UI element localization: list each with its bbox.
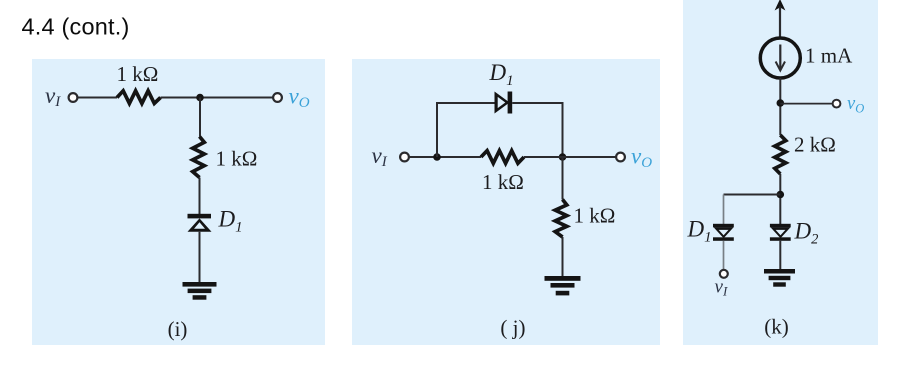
svg-text:1 mA: 1 mA	[805, 44, 853, 68]
wire terminal to node (panel j)	[409, 156, 481, 158]
node junction (panel i)	[196, 94, 204, 102]
value label 1 kOhm for R2 (panel j)	[574, 204, 616, 228]
svg-text:4.4 (cont.): 4.4 (cont.)	[22, 14, 130, 40]
value label 2 kOhm (panel k)	[794, 133, 836, 157]
diode D1 (panel i, cathode bar on top, triangle pointing up)	[188, 214, 212, 232]
node right junction (panel j)	[559, 153, 567, 161]
label vO (panel k)	[847, 94, 864, 115]
terminal vI (panel j)	[400, 153, 409, 162]
ground (panel j)	[545, 276, 581, 295]
wire R2 to ground (panel j)	[562, 237, 564, 277]
wire terminal to resistor R1	[78, 97, 117, 99]
label D1 (panel i)	[218, 207, 243, 236]
wire diode D1 to ground (panel i)	[199, 232, 201, 283]
svg-text:1 kΩ: 1 kΩ	[117, 62, 159, 86]
resistor R1 2 kOhm vertical (panel k)	[775, 135, 786, 174]
resistor R1 1 kOhm horizontal (panel i)	[117, 91, 161, 104]
svg-text:1 kΩ: 1 kΩ	[482, 170, 524, 194]
wire R2 to diode D1 (panel i)	[199, 178, 201, 216]
wire diode D1 to terminal vI (panel k)	[723, 241, 725, 270]
current source I1 1 mA (panel k)	[760, 38, 800, 78]
wire diode D2 to ground (panel k)	[779, 241, 781, 270]
label vO (panel i)	[289, 84, 310, 111]
wire lower node left and down to diode D1 (panel k)	[724, 195, 781, 225]
diode D1 (panel k, pointing down)	[713, 224, 734, 241]
svg-text:( j): ( j)	[500, 316, 525, 340]
terminal vI (panel i)	[69, 93, 78, 102]
resistor R1 1 kOhm horizontal (panel j)	[481, 151, 524, 164]
caption (i)	[168, 317, 188, 341]
caption (k)	[764, 314, 789, 338]
panel (j) background	[352, 59, 660, 345]
ground (panel i)	[183, 282, 217, 300]
node left junction (panel j)	[433, 153, 441, 161]
svg-text:(k): (k)	[764, 314, 789, 338]
resistor R2 1 kOhm vertical (panel j)	[555, 200, 567, 238]
wire current source to node (panel k)	[779, 78, 781, 135]
wire left junction up to top branch	[437, 103, 495, 157]
wire right junction to terminal vO (panel j)	[524, 156, 616, 158]
wire diode to right corner and down (panel j)	[512, 103, 562, 157]
wire node to terminal vO (panel k)	[780, 103, 832, 105]
terminal vO (panel k)	[833, 100, 841, 108]
svg-text:2 kΩ: 2 kΩ	[794, 133, 836, 157]
terminal vO (panel i)	[273, 93, 282, 102]
node junction lower (panel k)	[777, 191, 785, 199]
label vO (panel j)	[631, 144, 652, 171]
terminal vO (panel j)	[616, 153, 625, 162]
panel (k) background	[683, 0, 878, 345]
value label 1 mA (panel k)	[805, 44, 853, 68]
label D1 (panel k)	[687, 217, 712, 246]
label vI (panel k)	[715, 277, 728, 299]
value label 1 kOhm below R1 (panel j)	[482, 170, 524, 194]
wire right junction down to resistor R2 (panel j)	[562, 157, 564, 200]
caption (j)	[500, 316, 525, 340]
wire R1 to terminal vO (panel i)	[161, 97, 274, 99]
value label 1 kOhm for R2	[216, 147, 258, 171]
terminal vI (panel k)	[720, 270, 728, 278]
label vI (panel j)	[372, 143, 388, 170]
wire node down to resistor R2	[199, 98, 201, 137]
wire resistor to lower node (panel k)	[779, 174, 781, 225]
label D1 (panel j)	[489, 60, 514, 89]
resistor R2 1 kOhm vertical (panel i)	[193, 137, 205, 178]
value label 1 kOhm for R1	[117, 62, 159, 86]
diode D1 (panel j, horizontal, pointing right)	[495, 92, 513, 114]
svg-text:(i): (i)	[168, 317, 188, 341]
ground (panel k)	[764, 269, 795, 287]
node junction top (panel k)	[777, 99, 785, 107]
svg-text:1 kΩ: 1 kΩ	[216, 147, 258, 171]
diode D2 (panel k, pointing down)	[770, 224, 791, 241]
arrow up at top (panel k)	[775, 0, 786, 38]
label vI (panel i)	[45, 83, 61, 110]
svg-text:1 kΩ: 1 kΩ	[574, 204, 616, 228]
label D2 (panel k)	[794, 219, 819, 248]
panel (i) background	[32, 59, 325, 345]
